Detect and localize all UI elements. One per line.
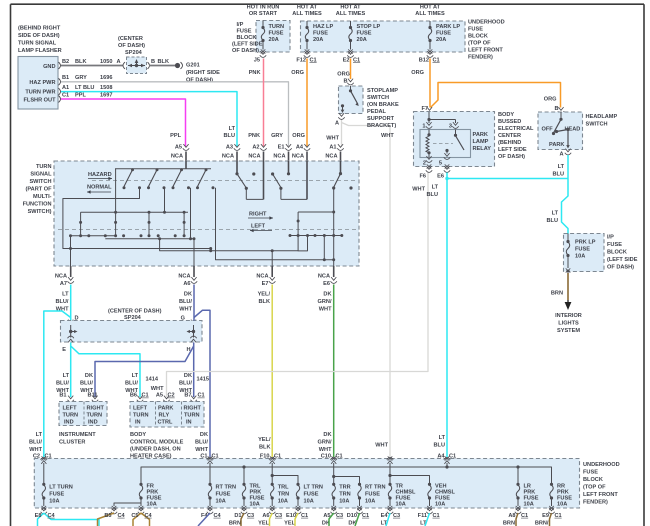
svg-text:GRN/: GRN/ <box>318 299 332 305</box>
svg-text:WHT: WHT <box>319 447 332 453</box>
svg-text:1414: 1414 <box>146 377 159 383</box>
svg-text:10A: 10A <box>435 502 445 508</box>
svg-text:TRN: TRN <box>278 492 290 498</box>
svg-text:UNDERHOOD: UNDERHOOD <box>583 462 620 468</box>
svg-text:TRL: TRL <box>278 485 289 491</box>
svg-text:WHT: WHT <box>29 447 42 453</box>
svg-text:BLU/: BLU/ <box>195 440 208 446</box>
svg-text:1: 1 <box>422 123 425 129</box>
svg-text:J5: J5 <box>254 57 260 63</box>
svg-text:10A: 10A <box>557 502 567 508</box>
svg-text:(CENTER OF DASH): (CENTER OF DASH) <box>108 308 162 314</box>
svg-text:SWITCH: SWITCH <box>367 95 389 101</box>
svg-text:BLU: BLU <box>224 133 236 139</box>
svg-text:E2: E2 <box>343 57 350 63</box>
svg-text:INTERIOR: INTERIOR <box>555 313 582 319</box>
svg-text:SWITCH): SWITCH) <box>28 209 52 215</box>
svg-text:BLU: BLU <box>553 172 565 178</box>
svg-text:FUSE: FUSE <box>607 242 622 248</box>
svg-text:LT: LT <box>552 211 559 217</box>
svg-text:ORG: ORG <box>291 70 304 76</box>
svg-text:1697: 1697 <box>100 92 112 98</box>
fuse TRL PRK 10A <box>241 483 265 514</box>
svg-text:C1: C1 <box>198 393 205 399</box>
svg-text:NCA: NCA <box>318 273 330 279</box>
fuse STOP LP FUSE 20A <box>343 21 381 63</box>
svg-text:B1: B1 <box>59 393 66 399</box>
svg-text:B7: B7 <box>184 393 191 399</box>
underhood bottom connector A8 C1 wire BRN <box>503 513 528 526</box>
svg-text:A4: A4 <box>296 144 304 150</box>
svg-text:B5: B5 <box>104 513 111 519</box>
wire LT BLU (headlamp switch A to PRK LP fuse) <box>547 155 569 234</box>
svg-text:C4: C4 <box>48 513 56 519</box>
splice SP204 lower (center of dash) <box>61 308 203 353</box>
svg-text:C3: C3 <box>247 513 254 519</box>
svg-text:B: B <box>151 59 155 65</box>
underhood bottom connector F11 C1 wire LT BLU <box>418 513 440 526</box>
svg-text:IN: IN <box>135 420 141 426</box>
underhood fuse block (top row) <box>292 5 504 61</box>
svg-text:TURN: TURN <box>87 413 103 419</box>
svg-text:C3: C3 <box>336 513 343 519</box>
underhood bottom connector D10 C1 wire DK GRN <box>347 513 369 526</box>
svg-text:FENDER): FENDER) <box>468 55 493 61</box>
svg-text:PNK: PNK <box>248 133 260 139</box>
svg-text:G201: G201 <box>186 62 200 68</box>
svg-text:LEFT FRONT: LEFT FRONT <box>468 48 503 54</box>
svg-text:(LEFT SIDE: (LEFT SIDE <box>607 257 638 263</box>
svg-text:YEL/: YEL/ <box>258 437 271 443</box>
svg-text:RIGHT: RIGHT <box>184 406 202 412</box>
svg-text:PARK: PARK <box>473 132 488 138</box>
fuse VEH CHMSL 10A <box>426 483 455 514</box>
svg-text:10A: 10A <box>365 499 375 505</box>
svg-text:FUSE: FUSE <box>583 470 598 476</box>
svg-text:SIGNAL: SIGNAL <box>30 172 52 178</box>
svg-text:(LEFT SIDE: (LEFT SIDE <box>232 42 263 48</box>
FR PRK fuse output split to B5 <box>111 503 141 514</box>
underhood bottom connector F4 C4 wire DK BLU <box>198 513 222 526</box>
svg-text:E6: E6 <box>437 173 444 179</box>
svg-text:B2: B2 <box>62 59 69 65</box>
svg-text:NCA: NCA <box>273 153 285 159</box>
svg-text:NORMAL: NORMAL <box>87 185 112 191</box>
svg-text:STOPLAMP: STOPLAMP <box>367 88 398 94</box>
svg-text:ORG: ORG <box>544 96 557 102</box>
svg-text:NCA: NCA <box>55 273 67 279</box>
svg-text:LT TURN: LT TURN <box>49 485 73 491</box>
wire GRY 1696 <box>61 75 289 146</box>
svg-text:WHT: WHT <box>195 447 208 453</box>
svg-text:RELAY: RELAY <box>473 146 492 152</box>
svg-text:LT: LT <box>63 373 70 379</box>
svg-text:YEL: YEL <box>258 520 269 526</box>
svg-text:WHT: WHT <box>412 187 425 193</box>
svg-text:10A: 10A <box>524 502 534 508</box>
svg-text:OFF: OFF <box>542 126 554 132</box>
svg-text:C1: C1 <box>301 513 308 519</box>
fuse LR PRK 10A <box>515 483 539 514</box>
svg-text:RT TRN: RT TRN <box>216 485 237 491</box>
fuse RR PRK 10A <box>548 483 572 514</box>
svg-text:BRN: BRN <box>551 291 563 297</box>
fuse TURN FUSE 20A <box>254 21 284 64</box>
svg-text:B: B <box>554 106 558 112</box>
svg-text:RLY: RLY <box>159 413 170 419</box>
svg-text:10A: 10A <box>304 499 314 505</box>
svg-text:A5: A5 <box>156 393 163 399</box>
svg-text:A3: A3 <box>226 144 233 150</box>
svg-text:LT: LT <box>432 185 439 191</box>
svg-text:PRK LP: PRK LP <box>575 240 596 246</box>
svg-text:20A: 20A <box>357 37 367 43</box>
svg-text:GRN/: GRN/ <box>318 440 332 446</box>
svg-text:FUSE: FUSE <box>304 492 319 498</box>
I/P fuse block (prk lp fuse, left side of dash) <box>564 234 638 272</box>
svg-text:10A: 10A <box>575 254 585 260</box>
svg-text:ALL TIMES: ALL TIMES <box>292 11 322 17</box>
svg-text:LT: LT <box>229 126 236 132</box>
svg-text:STOP LP: STOP LP <box>357 24 381 30</box>
svg-text:SUPPORT: SUPPORT <box>367 116 395 122</box>
svg-text:B12: B12 <box>419 57 429 63</box>
svg-text:C4: C4 <box>145 513 153 519</box>
svg-text:NCA: NCA <box>178 273 190 279</box>
svg-text:LIGHTS: LIGHTS <box>558 321 579 327</box>
svg-text:BLU/: BLU/ <box>179 299 192 305</box>
svg-text:OF DASH): OF DASH) <box>607 265 634 271</box>
svg-text:PNK: PNK <box>249 70 261 76</box>
svg-text:A1: A1 <box>329 144 336 150</box>
svg-text:C1: C1 <box>521 513 528 519</box>
svg-text:ORG: ORG <box>292 133 305 139</box>
svg-text:LT: LT <box>62 292 69 298</box>
svg-text:C1: C1 <box>433 57 440 63</box>
svg-text:LT BLU: LT BLU <box>75 85 94 91</box>
svg-text:OF DASH): OF DASH) <box>498 154 525 160</box>
svg-text:DK: DK <box>184 373 192 379</box>
svg-text:C1: C1 <box>555 513 562 519</box>
svg-text:FUSE: FUSE <box>269 31 284 37</box>
svg-text:TRN: TRN <box>339 492 351 498</box>
svg-text:A6: A6 <box>183 281 190 287</box>
fuse PARK LP FUSE 20A <box>419 21 461 63</box>
svg-text:PARK: PARK <box>549 142 564 148</box>
svg-text:D10: D10 <box>347 513 357 519</box>
svg-text:(TOP OF: (TOP OF <box>583 485 606 491</box>
fuse LT TRN (2) 10A <box>295 483 323 514</box>
svg-text:YEL/: YEL/ <box>258 292 271 298</box>
underhood bottom connector B5 C4 wire TAN <box>98 513 126 526</box>
svg-text:UNDERHOOD: UNDERHOOD <box>468 20 505 26</box>
fuse PRK LP FUSE 10A <box>566 234 596 274</box>
svg-text:FUSE: FUSE <box>357 31 372 37</box>
underhood bottom connector E10 C1 wire YEL <box>284 513 308 526</box>
splice SP204 (center of dash) <box>118 36 150 73</box>
svg-text:E10: E10 <box>286 513 296 519</box>
svg-text:SYSTEM: SYSTEM <box>557 328 580 334</box>
svg-text:LEFT: LEFT <box>63 406 78 412</box>
svg-text:(UNDER DASH, ON: (UNDER DASH, ON <box>130 447 181 453</box>
svg-text:CLUSTER: CLUSTER <box>59 439 85 445</box>
svg-text:D1: D1 <box>234 513 241 519</box>
svg-text:B: B <box>343 78 347 84</box>
underhood bottom connector D1 C3 wire BRN <box>229 513 254 526</box>
switch interior contacts (right) <box>289 161 353 266</box>
svg-text:BLOCK: BLOCK <box>237 35 257 41</box>
underhood bottom connector A5 C3 wire DK GRN <box>322 513 343 526</box>
svg-text:LEFT: LEFT <box>251 224 266 230</box>
right-left actuator labels <box>248 212 273 233</box>
svg-text:10A: 10A <box>147 502 157 508</box>
underhood bottom connector E4 C3 wire LT BLU <box>381 513 401 526</box>
svg-text:BRN: BRN <box>229 520 241 526</box>
svg-text:B6: B6 <box>130 393 137 399</box>
svg-text:(CENTER: (CENTER <box>118 36 143 42</box>
underhood bottom connector E8 C4 wire LT BLU <box>35 513 99 526</box>
svg-text:SWITCH: SWITCH <box>586 122 608 128</box>
svg-text:WHT: WHT <box>179 307 192 313</box>
wire DK GRN/WHT (E6 to underhood C10) <box>318 285 343 460</box>
svg-text:HEADLAMP: HEADLAMP <box>586 114 618 120</box>
svg-text:A6: A6 <box>262 513 269 519</box>
wire ORG (haz fuse to switch A4) <box>291 59 307 147</box>
svg-text:E: E <box>62 347 66 353</box>
svg-text:HAZARD: HAZARD <box>88 172 112 178</box>
svg-text:A2: A2 <box>252 144 259 150</box>
svg-text:OF DASH): OF DASH) <box>232 48 259 54</box>
svg-text:BLU/: BLU/ <box>179 381 192 387</box>
svg-text:A: A <box>335 120 339 126</box>
svg-text:C5: C5 <box>131 513 138 519</box>
svg-text:DK: DK <box>323 292 331 298</box>
svg-text:INSTRUMENT: INSTRUMENT <box>59 432 96 438</box>
svg-text:SIDE OF DASH): SIDE OF DASH) <box>18 33 60 39</box>
svg-text:C1: C1 <box>362 513 369 519</box>
svg-text:(ON BRAKE: (ON BRAKE <box>367 102 399 108</box>
svg-text:E1: E1 <box>278 144 285 150</box>
svg-text:IND: IND <box>88 420 98 426</box>
svg-text:FUSE: FUSE <box>436 31 451 37</box>
svg-text:RT TRN: RT TRN <box>365 485 386 491</box>
svg-text:LT: LT <box>132 373 139 379</box>
svg-text:BLU/: BLU/ <box>125 381 138 387</box>
svg-text:TURN SIGNAL: TURN SIGNAL <box>18 41 57 47</box>
turn signal lamp flasher <box>18 26 62 110</box>
svg-text:20A: 20A <box>269 37 279 43</box>
switch interior contacts (middle) <box>235 161 307 199</box>
svg-text:A: A <box>559 152 563 158</box>
svg-text:HAZ LP: HAZ LP <box>313 24 333 30</box>
svg-text:1508: 1508 <box>100 85 112 91</box>
svg-text:1050: 1050 <box>100 59 112 65</box>
svg-text:HOT IN RUN: HOT IN RUN <box>247 5 280 11</box>
svg-text:LAMP FLASHER: LAMP FLASHER <box>18 48 62 54</box>
svg-text:LT: LT <box>558 164 565 170</box>
svg-text:B1: B1 <box>62 75 69 81</box>
svg-text:F7: F7 <box>421 106 428 112</box>
svg-text:C4: C4 <box>118 513 126 519</box>
svg-text:HAZ PWR: HAZ PWR <box>29 80 55 86</box>
fuse LT TURN 10A <box>41 483 73 514</box>
svg-text:IND: IND <box>64 420 74 426</box>
svg-text:ALL TIMES: ALL TIMES <box>415 11 445 17</box>
svg-text:A1: A1 <box>62 85 69 91</box>
svg-text:C3: C3 <box>275 513 282 519</box>
svg-text:TURN PWR: TURN PWR <box>25 90 55 96</box>
svg-text:NCA: NCA <box>248 153 260 159</box>
svg-text:BLU/: BLU/ <box>80 381 93 387</box>
svg-text:FUSE: FUSE <box>468 27 483 33</box>
svg-text:10A: 10A <box>250 502 260 508</box>
svg-text:F11: F11 <box>418 513 427 519</box>
svg-text:YEL: YEL <box>284 520 295 526</box>
svg-text:TURN: TURN <box>269 24 285 30</box>
wire YEL/BLK (E7 to underhood F10) <box>258 285 282 460</box>
wire PNK (turn fuse to switch A2) <box>248 59 263 147</box>
svg-text:10A: 10A <box>278 499 288 505</box>
body bussed electrical center <box>414 106 535 167</box>
svg-text:HOT AT: HOT AT <box>420 5 441 11</box>
svg-text:WHT: WHT <box>151 386 164 392</box>
svg-text:10A: 10A <box>49 499 59 505</box>
svg-text:DK: DK <box>323 432 331 438</box>
svg-text:LT: LT <box>36 432 43 438</box>
svg-text:ORG: ORG <box>411 70 424 76</box>
svg-text:NCA: NCA <box>256 273 268 279</box>
body control module <box>130 396 204 460</box>
svg-text:DK: DK <box>200 432 208 438</box>
svg-text:ALL TIMES: ALL TIMES <box>336 11 366 17</box>
svg-text:LEFT FRONT: LEFT FRONT <box>583 492 618 498</box>
fuse TRL TRN 10A <box>269 483 289 514</box>
wire LT BLU/WHT (A7 to SP204 D and LT TURN fuse) <box>29 285 71 460</box>
svg-text:WHT: WHT <box>381 133 394 139</box>
turn signal switch top pin connectors A5 A3 A2 E1 A4 A1 <box>171 144 344 161</box>
svg-text:PPL: PPL <box>75 92 86 98</box>
switch interior wiring (left) <box>63 169 334 260</box>
svg-text:10A: 10A <box>339 499 349 505</box>
instrument cluster <box>59 396 107 446</box>
fuse TR CHMSL 10A <box>387 483 416 514</box>
headlamp switch <box>538 106 617 158</box>
svg-text:2: 2 <box>423 160 426 166</box>
svg-text:PPL: PPL <box>170 133 181 139</box>
svg-text:(BEHIND: (BEHIND <box>498 140 521 146</box>
svg-text:OR START: OR START <box>249 11 278 17</box>
I/P fuse block (left side of dash) <box>232 5 290 55</box>
svg-text:TURN: TURN <box>36 164 52 170</box>
svg-text:FUSE: FUSE <box>575 247 590 253</box>
svg-text:FUSE: FUSE <box>313 31 328 37</box>
svg-text:A5: A5 <box>175 144 182 150</box>
svg-text:BLU/: BLU/ <box>55 299 68 305</box>
svg-text:E7: E7 <box>262 281 269 287</box>
svg-text:E8: E8 <box>35 513 42 519</box>
svg-text:CENTER: CENTER <box>498 133 521 139</box>
svg-text:GRY: GRY <box>75 75 87 81</box>
svg-text:20A: 20A <box>436 37 446 43</box>
wire BLK (splice to G201) <box>149 59 176 66</box>
park lamp relay <box>419 112 491 179</box>
svg-text:LEFT SIDE: LEFT SIDE <box>498 147 527 153</box>
svg-text:DK: DK <box>85 373 93 379</box>
fuse HAZ LP FUSE 20A <box>296 21 333 63</box>
svg-text:1415: 1415 <box>197 377 209 383</box>
svg-text:FUSE: FUSE <box>216 492 231 498</box>
svg-text:BLK: BLK <box>158 59 170 65</box>
svg-text:HOT AT: HOT AT <box>340 5 361 11</box>
svg-text:A8: A8 <box>508 513 515 519</box>
svg-text:3: 3 <box>449 123 452 129</box>
svg-text:10A: 10A <box>396 502 406 508</box>
underhood bottom connector A6 C3 wire YEL <box>258 513 282 526</box>
underhood fuse block top connectors C2 C1 F10 C10 D11 A4 <box>41 456 451 464</box>
svg-text:FUSE: FUSE <box>365 492 380 498</box>
svg-text:BLK: BLK <box>259 445 271 451</box>
svg-text:BLK: BLK <box>259 299 271 305</box>
svg-text:LEFT: LEFT <box>133 406 148 412</box>
svg-text:C3: C3 <box>393 513 400 519</box>
svg-text:RIGHT: RIGHT <box>249 212 267 218</box>
svg-text:FLSHR OUT: FLSHR OUT <box>23 98 56 104</box>
svg-text:WHT: WHT <box>326 136 339 142</box>
svg-text:BLU: BLU <box>547 218 559 224</box>
svg-text:BLOCK: BLOCK <box>583 477 603 483</box>
svg-text:F12: F12 <box>296 57 306 63</box>
svg-text:MULTI-: MULTI- <box>33 194 52 200</box>
svg-text:C1: C1 <box>310 57 317 63</box>
svg-text:BLU/: BLU/ <box>56 381 69 387</box>
hazard-normal actuator labels <box>87 172 112 194</box>
wire LT BLU/WHT (SP204 E to cluster B1 and BCM B6) <box>56 343 159 399</box>
svg-text:E6: E6 <box>323 281 330 287</box>
svg-text:BLU/: BLU/ <box>29 440 42 446</box>
svg-text:C4: C4 <box>214 513 222 519</box>
svg-text:BLOCK: BLOCK <box>468 34 488 40</box>
wire LT BLU 1508 <box>61 85 237 146</box>
svg-text:NCA: NCA <box>222 153 234 159</box>
wire PPL 1697 <box>61 92 186 146</box>
svg-text:BRN: BRN <box>503 520 515 526</box>
svg-text:BLOCK: BLOCK <box>607 250 627 256</box>
svg-text:HOT AT: HOT AT <box>297 5 318 11</box>
svg-text:GRY: GRY <box>271 133 283 139</box>
svg-text:(PART OF: (PART OF <box>26 187 53 193</box>
svg-text:(BEHIND RIGHT: (BEHIND RIGHT <box>18 26 61 32</box>
svg-text:BLU: BLU <box>434 443 446 449</box>
svg-text:I/P: I/P <box>607 235 614 241</box>
svg-text:NCA: NCA <box>171 153 183 159</box>
svg-text:TURN: TURN <box>184 413 200 419</box>
svg-text:NCA: NCA <box>292 153 304 159</box>
svg-text:10A: 10A <box>216 499 226 505</box>
svg-text:(RIGHT SIDE: (RIGHT SIDE <box>186 70 220 76</box>
svg-text:BRACKET): BRACKET) <box>367 123 396 129</box>
svg-text:F6: F6 <box>419 173 426 179</box>
svg-text:C1: C1 <box>353 57 360 63</box>
turn signal switch bottom pins A7 A6 E7 E6 <box>55 236 337 287</box>
svg-text:GND: GND <box>43 64 55 70</box>
svg-text:PARK LP: PARK LP <box>436 24 460 30</box>
svg-text:ELECTRICAL: ELECTRICAL <box>498 126 534 132</box>
wire DK BLU/WHT (A6 to SP204 G, H to B11/B7, G to underhood C1) <box>80 285 219 460</box>
svg-text:C1: C1 <box>62 92 69 98</box>
svg-text:WHT: WHT <box>319 307 332 313</box>
svg-text:ORG: ORG <box>337 71 350 77</box>
underhood bottom connector C5 C4 wire TAN <box>131 513 152 526</box>
